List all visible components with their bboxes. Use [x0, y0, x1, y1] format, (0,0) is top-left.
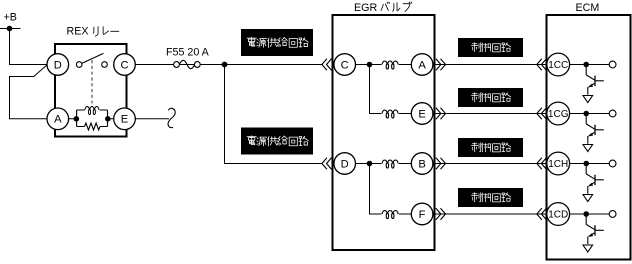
relay resistor: [85, 123, 100, 130]
wire EGR E to ECM 1CG: [433, 113, 547, 115]
node coil right: [105, 116, 111, 122]
solenoid winding row4: [381, 208, 398, 221]
relay REX box: [55, 44, 127, 137]
label box control circuit 2: [458, 88, 523, 107]
relay switch blade: [82, 53, 103, 63]
label box power supply circuit 1: [241, 29, 313, 56]
relay coil / resistor parallel frame: [77, 110, 108, 127]
terminal circle row2: [609, 110, 616, 117]
EGR valve box: [333, 15, 435, 250]
svg-text:B: B: [418, 158, 425, 170]
connector chevrons EGR E outlet: [436, 108, 446, 119]
svg-text:E: E: [121, 114, 128, 126]
EGR pin C: [334, 54, 356, 76]
svg-text:F55 20 A: F55 20 A: [166, 47, 210, 59]
wire EGR C to solenoid A: [356, 64, 412, 66]
transistor Q row3: [583, 164, 604, 202]
relay pin C: [114, 54, 136, 76]
wire coil to relay E: [108, 118, 125, 120]
node +B junction dot: [7, 26, 13, 32]
node 1CC junction: [583, 62, 589, 68]
svg-text:D: D: [341, 158, 349, 170]
solenoid winding row1: [381, 58, 398, 71]
solenoid winding row2: [381, 107, 398, 120]
ECM row 1CD internals: [570, 211, 616, 252]
wire EGR B to ECM 1CH: [433, 163, 547, 165]
node 1CD junction: [583, 211, 589, 217]
transistor Q row2: [583, 114, 604, 152]
svg-text:+B: +B: [4, 12, 17, 24]
wire 1CD to terminal: [570, 213, 610, 215]
relay coil winding: [85, 107, 99, 115]
connector chevrons EGR B outlet: [436, 158, 446, 169]
label box control circuit 1: [458, 38, 523, 57]
relay pin E: [114, 108, 136, 130]
ECM pin 1CH: [547, 152, 570, 175]
svg-text:ECM: ECM: [576, 2, 600, 14]
connector chevrons EGR C inlet: [322, 59, 332, 70]
node coil left: [74, 116, 80, 122]
wire 1CC to terminal: [570, 64, 610, 66]
label box control circuit 3: [458, 138, 523, 157]
break symbol (wire continues): [168, 108, 175, 127]
relay switch contact right: [102, 62, 108, 68]
wire 1CH to terminal: [570, 163, 610, 165]
connector chevrons EGR A outlet: [436, 59, 446, 70]
node EGR D branch: [367, 161, 373, 167]
wire relay D to relay A loop: [10, 65, 48, 119]
svg-text:D: D: [54, 59, 62, 71]
svg-text:E: E: [418, 108, 425, 120]
svg-text:1CG: 1CG: [548, 109, 569, 120]
EGR pin F: [411, 203, 433, 225]
ECM row 1CG internals: [570, 110, 616, 151]
svg-text:EGR: EGR: [354, 2, 377, 14]
svg-text:1CH: 1CH: [548, 159, 568, 170]
svg-text:C: C: [341, 59, 349, 71]
wire junction down to row 3: [225, 65, 323, 164]
EGR pin D: [334, 153, 356, 175]
node 1CG junction: [583, 111, 589, 117]
label REXリレー: [67, 26, 119, 38]
connector chevrons EGR F outlet: [436, 208, 446, 219]
label box power supply circuit 2: [241, 128, 313, 155]
relay pin A: [47, 108, 69, 130]
EGR pin B: [411, 153, 433, 175]
wire relay A to coil: [58, 118, 77, 120]
label box control circuit 4: [458, 188, 523, 207]
node EGR C branch: [367, 62, 373, 68]
svg-text:REX: REX: [67, 26, 89, 38]
ECM row 1CH internals: [570, 160, 616, 201]
connector chevrons EGR D inlet: [322, 158, 332, 169]
svg-text:F: F: [419, 209, 426, 221]
relay pin D: [47, 54, 69, 76]
connector chevrons ECM 1CC: [537, 59, 547, 70]
wire EGR branch down to F: [370, 164, 412, 215]
connector chevrons ECM 1CD: [537, 208, 547, 219]
node 1CH junction: [583, 161, 589, 167]
label EGRバルブ: [354, 2, 412, 14]
fuse F55 20 A: [174, 60, 201, 68]
wire EGR A to ECM 1CC: [433, 64, 547, 66]
wire relay C to fuse and junction: [135, 64, 322, 66]
wire EGR D to solenoid B: [356, 163, 412, 165]
terminal circle row3: [609, 160, 616, 167]
ECM row 1CC internals: [570, 61, 616, 102]
ECM box: [547, 15, 631, 260]
wire 1CG to terminal: [570, 113, 610, 115]
node fuse output junction: [222, 62, 228, 68]
wire +B feed horizontal: [0, 28, 21, 30]
ECM pin 1CD: [547, 203, 570, 226]
wire +B down to relay D: [10, 29, 48, 65]
connector chevrons ECM 1CH: [537, 158, 547, 169]
svg-text:A: A: [54, 114, 62, 126]
terminal circle row1: [609, 61, 616, 68]
EGR pin A: [411, 54, 433, 76]
ECM pin 1CG: [547, 102, 570, 125]
svg-text:1CD: 1CD: [548, 209, 568, 220]
transistor Q row4: [583, 214, 604, 252]
transistor Q row1: [583, 65, 604, 103]
svg-text:1CC: 1CC: [548, 60, 568, 71]
relay switch contact left: [76, 62, 82, 68]
connector chevrons ECM 1CG: [537, 108, 547, 119]
wire relay E to break: [135, 118, 169, 120]
ECM pin 1CC: [547, 53, 570, 76]
svg-text:C: C: [120, 59, 128, 71]
wire EGR branch down to E: [370, 65, 412, 114]
terminal circle row4: [609, 211, 616, 218]
EGR pin E: [411, 103, 433, 125]
wire EGR F to ECM 1CD: [433, 213, 547, 215]
relay actuation dashed link: [91, 60, 93, 104]
svg-text:A: A: [418, 59, 426, 71]
solenoid winding row3: [381, 157, 398, 170]
